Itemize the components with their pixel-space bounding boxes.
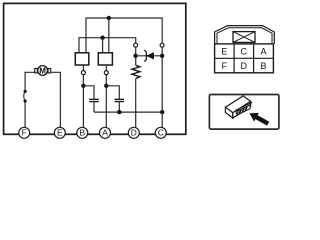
svg-text:C: C xyxy=(158,128,164,138)
wire: C chain vertical xyxy=(161,47,163,128)
wire: top bus A (y=17) xyxy=(86,18,162,53)
wire: ground rail y=112.4 xyxy=(94,111,162,113)
terminal circle on C chain xyxy=(160,43,164,47)
svg-text:C: C xyxy=(241,47,248,57)
resistor R xyxy=(132,65,140,78)
svg-text:B: B xyxy=(260,61,266,71)
wire: D chain vertical xyxy=(135,47,137,128)
junction: rail meets C drop xyxy=(160,110,164,114)
housing outer outline xyxy=(215,26,275,44)
latch box with X xyxy=(233,32,255,43)
connector pinout (top right) xyxy=(215,26,275,73)
connector 3D icon: pin block top sliver xyxy=(238,103,252,111)
wire: motor loop left (node to switch) xyxy=(25,72,34,91)
motor M xyxy=(38,66,48,76)
wire: motor loop right to terminal E xyxy=(51,72,61,128)
capacitor C2 plates xyxy=(115,99,125,101)
svg-text:A: A xyxy=(260,47,266,57)
switch (park switch) xyxy=(24,90,27,103)
terminal E xyxy=(54,127,65,138)
terminal circle under box2 xyxy=(104,71,108,75)
pin grid xyxy=(215,44,274,73)
wire: box1 bottom to terminal B xyxy=(82,65,84,128)
connector 3D icon: pin block face xyxy=(238,105,251,115)
terminal C xyxy=(155,127,166,138)
pin block pins xyxy=(239,107,247,114)
junction: cap2 tap xyxy=(104,84,108,88)
capacitor C1 leads xyxy=(83,86,94,99)
wire: switch to terminal F xyxy=(24,101,26,128)
wire: bus A drop to box2 right pin xyxy=(108,18,110,53)
svg-text:A: A xyxy=(102,128,108,138)
arrow pointing at connector xyxy=(250,113,270,126)
terminal circle above resistor xyxy=(134,43,138,47)
terminal A xyxy=(100,127,111,138)
wire: bus B drop to box2 left pin xyxy=(102,38,104,53)
terminal circle under box1 xyxy=(81,71,85,75)
svg-text:B: B xyxy=(80,128,86,138)
junction on bus B above box2 pin xyxy=(100,36,104,40)
component box 1 (breaker) xyxy=(75,53,89,65)
housing inner outline xyxy=(217,28,272,44)
wire: second bus B (y=37.3) xyxy=(79,38,136,53)
connector 3D icon: pin block left end xyxy=(236,110,238,115)
junction: zener left node xyxy=(133,54,137,58)
connector 3D icon: top face xyxy=(225,96,250,113)
svg-text:F: F xyxy=(22,128,27,138)
svg-text:E: E xyxy=(57,128,63,138)
junction: cap1 tap xyxy=(81,84,85,88)
connector 3D icon: front-left face xyxy=(225,107,232,118)
junction on bus A above box2 pin xyxy=(107,16,111,20)
motor brush left xyxy=(35,69,38,73)
component box 2 (breaker) xyxy=(98,53,112,65)
connector 3D icon: right face xyxy=(233,101,251,118)
svg-text:E: E xyxy=(221,47,227,57)
terminal B xyxy=(77,127,88,138)
connector view panel (bottom right) xyxy=(209,95,279,130)
terminal F xyxy=(19,127,30,138)
svg-text:D: D xyxy=(131,128,137,138)
junction: zener right node xyxy=(160,54,164,58)
junction: cap2 on rail xyxy=(117,110,121,114)
capacitor C1 plates xyxy=(89,99,99,101)
panel frame xyxy=(209,95,279,130)
terminal D xyxy=(128,127,139,138)
motor brush right xyxy=(48,69,51,73)
main enclosure box xyxy=(4,3,186,134)
svg-text:M: M xyxy=(39,66,46,75)
zener diode (between D and C chains) xyxy=(136,50,163,61)
svg-text:D: D xyxy=(241,61,248,71)
capacitor C2 leads xyxy=(106,86,119,99)
svg-text:F: F xyxy=(222,61,228,71)
wire: box2 bottom to terminal A xyxy=(105,65,107,128)
